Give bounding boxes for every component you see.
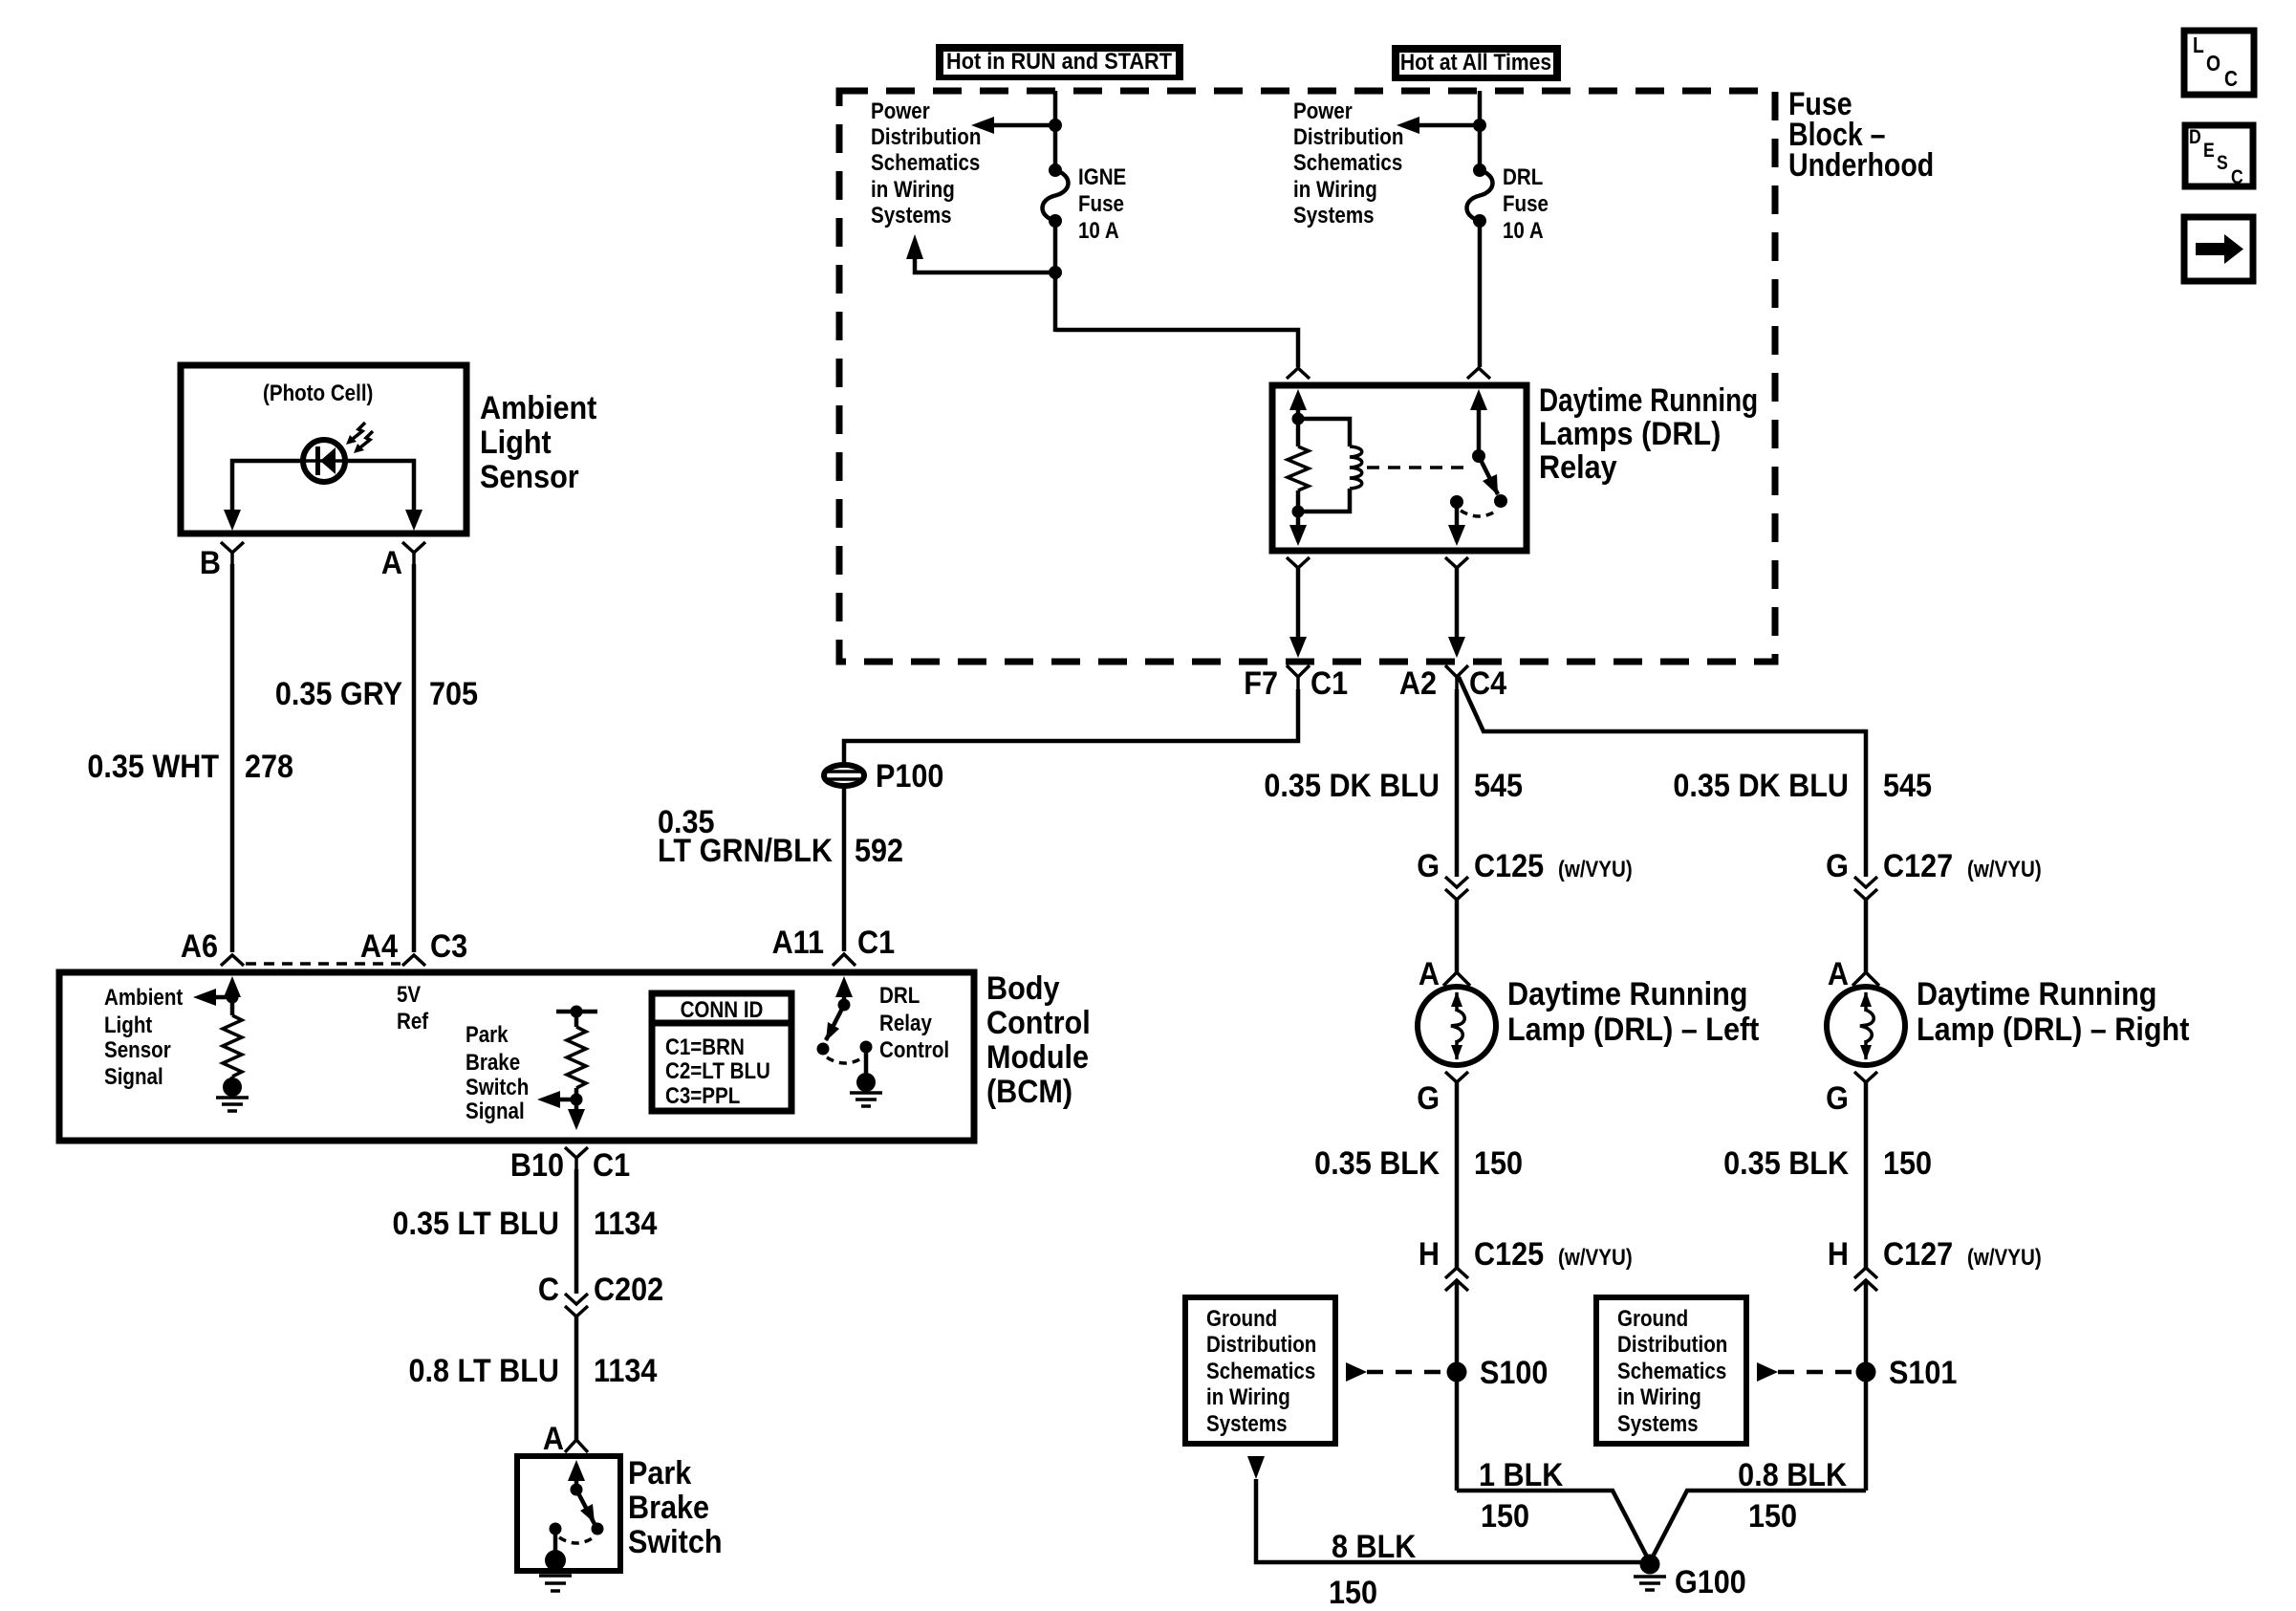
svg-text:C4: C4	[1469, 665, 1506, 702]
node S101	[1856, 1362, 1876, 1382]
wire: resistor bottom to junction	[1296, 490, 1301, 522]
relay output arrow (inside box, pointing down)	[1448, 525, 1465, 546]
svg-text:0.8 BLK: 0.8 BLK	[1738, 1457, 1847, 1493]
wire: DRL fuse output down to relay	[1478, 221, 1483, 367]
svg-text:LT GRN/BLK: LT GRN/BLK	[658, 833, 834, 869]
svg-text:D: D	[2189, 126, 2201, 149]
node: IGNE output junction	[1049, 266, 1062, 279]
Fuse Block - Underhood dashed enclosure	[839, 91, 1775, 662]
arrow: ambient light sensor signal (pointing left)	[193, 989, 216, 1006]
svg-text:B: B	[200, 545, 221, 581]
label: power distribution note (IGNE side)	[871, 98, 981, 228]
wire label: 0.8 BLK 150	[1738, 1457, 1847, 1535]
svg-text:C1=BRN: C1=BRN	[665, 1034, 745, 1059]
svg-text:in Wiring: in Wiring	[1293, 176, 1377, 202]
DESC legend box	[2185, 125, 2253, 188]
svg-text:Distribution: Distribution	[871, 123, 981, 149]
node: DRL relay control open contact	[817, 1043, 830, 1056]
svg-text:Distribution: Distribution	[1206, 1331, 1316, 1357]
label: Ground Distribution Schematics in Wiring Systems (right)	[1617, 1305, 1727, 1436]
dashed connector boundary between A6 and A4	[246, 962, 401, 966]
label: Body Control Module (BCM)	[986, 970, 1091, 1110]
relay coil branch wiring	[1298, 419, 1350, 446]
node: relay switch output contact	[1450, 495, 1463, 509]
svg-text:Systems: Systems	[1617, 1410, 1699, 1436]
svg-text:A4: A4	[360, 928, 398, 965]
relay switch common arrow (inside box)	[1470, 389, 1487, 410]
svg-text:DRL: DRL	[879, 982, 920, 1008]
connector pin A of park brake switch	[543, 1421, 588, 1457]
wire: sensor A to BCM A4 (0.35 GRY 705)	[412, 564, 417, 952]
wire: branch left and up to power distribution arrow	[915, 258, 1055, 272]
wire: battery feed into IGNE fuse	[1053, 91, 1058, 170]
label: Ground Distribution Schematics in Wiring Systems (left)	[1206, 1305, 1316, 1436]
resistor: park brake switch pull-up inside BCM	[567, 1012, 586, 1113]
svg-text:Ground: Ground	[1206, 1305, 1277, 1331]
wire label: 0.35 BLK 150 (left)	[1314, 1145, 1523, 1182]
wire: relay coil output down to fuse block edge	[1296, 568, 1301, 643]
arrow: ground distribution link (right, pointing right)	[1757, 1362, 1778, 1382]
node: DRL feed junction	[1473, 119, 1486, 132]
svg-text:IGNE: IGNE	[1078, 163, 1126, 189]
connector A4/C3 at BCM	[360, 928, 467, 966]
wire label: 1 BLK 150	[1479, 1457, 1564, 1535]
svg-text:(w/VYU): (w/VYU)	[1558, 1244, 1633, 1270]
wire: photocell left lead to pin B	[232, 461, 304, 514]
ground: ALS resistor ground inside BCM	[216, 1077, 249, 1111]
lamp E2: Daytime Running Lamp (DRL) - Right	[1827, 987, 1905, 1065]
svg-text:Park: Park	[466, 1021, 509, 1047]
wire: ALS signal tap to left	[216, 995, 232, 1000]
svg-text:A: A	[543, 1421, 564, 1457]
wire: park brake signal tap to left	[560, 1098, 576, 1102]
CONN ID table	[652, 993, 791, 1111]
connector pin G of right lamp	[1826, 1072, 1877, 1116]
svg-text:H: H	[1419, 1236, 1440, 1273]
svg-text:1 BLK: 1 BLK	[1479, 1457, 1564, 1493]
wire label: 0.8 LT BLU 1134	[409, 1353, 658, 1389]
label: Daytime Running Lamp (DRL) - Right	[1917, 976, 2190, 1048]
wire: F7 down, left and to P100	[844, 689, 1298, 765]
svg-text:Body: Body	[986, 970, 1059, 1007]
wire label: 0.35 LT BLU 1134	[393, 1206, 658, 1242]
node: ALS signal junction	[227, 991, 239, 1004]
wire: relay switch output down to fuse block edge	[1455, 568, 1460, 643]
svg-text:C2=LT BLU: C2=LT BLU	[665, 1057, 770, 1083]
Ground Distribution box (left)	[1185, 1297, 1335, 1444]
wire: right lamp return to S101	[1864, 1280, 1869, 1491]
svg-text:Daytime Running: Daytime Running	[1507, 976, 1747, 1012]
svg-text:S: S	[2217, 152, 2228, 175]
dashed wire to S101	[1778, 1370, 1854, 1375]
svg-text:545: 545	[1883, 768, 1932, 804]
svg-text:Switch: Switch	[628, 1524, 723, 1560]
svg-text:Schematics: Schematics	[1617, 1358, 1726, 1383]
node: park brake signal junction	[571, 1094, 583, 1106]
svg-text:in Wiring: in Wiring	[1206, 1383, 1290, 1409]
fuse DRL (10 A)	[1467, 163, 1493, 228]
switch arm: DRL relay control	[826, 1005, 844, 1040]
svg-text:Schematics: Schematics	[871, 149, 980, 175]
dashed travel arc of park brake switch	[559, 1537, 594, 1543]
wire: relay switch output down	[1455, 502, 1460, 541]
label: Daytime Running Lamp (DRL) - Left	[1507, 976, 1760, 1048]
svg-text:B10: B10	[510, 1147, 564, 1184]
wire: IGNE output over to relay coil input	[1055, 330, 1298, 367]
wire label: 8 BLK 150	[1329, 1529, 1417, 1611]
connector pin B of sensor	[200, 542, 244, 580]
svg-text:150: 150	[1329, 1575, 1377, 1611]
svg-text:Ground: Ground	[1617, 1305, 1688, 1331]
svg-text:Switch: Switch	[466, 1074, 529, 1099]
connector G/C125 (w/VYU) in-line left	[1417, 848, 1633, 900]
svg-text:C202: C202	[594, 1272, 663, 1308]
node: relay switch pivot	[1472, 449, 1485, 463]
connector chevron: relay switch pin (bottom, below box)	[1445, 557, 1468, 568]
svg-text:C125: C125	[1474, 848, 1544, 884]
wire: branch to power distribution (left arrow)	[994, 123, 1055, 128]
svg-text:H: H	[1828, 1236, 1849, 1273]
svg-text:A: A	[381, 545, 402, 581]
wire: left lamp ground lead	[1455, 1082, 1460, 1268]
svg-text:(w/VYU): (w/VYU)	[1967, 1244, 2042, 1270]
connector C/C202 in-line	[538, 1272, 663, 1317]
dashed link: coil actuates switch	[1367, 466, 1472, 469]
label: DRL Relay Control	[879, 982, 949, 1062]
arrow at fuse block exit (switch side)	[1448, 637, 1465, 658]
switch arm: park brake switch	[576, 1490, 595, 1524]
wire label: 0.35 GRY 705	[275, 676, 478, 712]
svg-text:Park: Park	[628, 1455, 692, 1491]
svg-text:C3: C3	[430, 928, 467, 965]
svg-text:0.35 GRY: 0.35 GRY	[275, 676, 403, 712]
svg-text:O: O	[2206, 53, 2220, 76]
svg-text:S100: S100	[1480, 1355, 1548, 1391]
svg-text:1134: 1134	[594, 1206, 657, 1242]
svg-text:Power: Power	[1293, 98, 1353, 123]
svg-text:C: C	[538, 1272, 559, 1308]
svg-text:0.35 BLK: 0.35 BLK	[1723, 1145, 1849, 1182]
wire: C202 to park brake switch (0.8 LT BLU 1134)	[574, 1317, 579, 1440]
svg-text:592: 592	[855, 833, 903, 869]
node: DRL relay control ground contact	[860, 1041, 873, 1054]
arrow: ground distribution link (left, pointing right)	[1346, 1362, 1367, 1382]
svg-text:278: 278	[245, 749, 293, 785]
wire: right lamp ground lead	[1864, 1082, 1869, 1268]
wire: A6 input to resistor	[230, 992, 235, 1015]
wire: pin A to switch pivot	[574, 1476, 579, 1490]
svg-text:Signal: Signal	[466, 1098, 525, 1123]
svg-text:0.35 LT BLU: 0.35 LT BLU	[393, 1206, 559, 1242]
svg-text:1134: 1134	[594, 1353, 657, 1389]
svg-text:Lamp (DRL) – Right: Lamp (DRL) – Right	[1917, 1012, 2190, 1048]
label: Park Brake Switch Signal	[466, 1021, 529, 1123]
svg-text:8 BLK: 8 BLK	[1332, 1529, 1417, 1565]
Fuse Block - Underhood label	[1788, 86, 1934, 184]
wire: IGNE fuse output down	[1053, 221, 1058, 332]
photocell D1 (photodiode in circle)	[303, 423, 373, 482]
ground: BCM driver ground	[850, 1047, 882, 1106]
svg-text:150: 150	[1474, 1145, 1523, 1182]
wire label: 0.35 DK BLU 545 (left)	[1264, 768, 1523, 804]
svg-text:Hot at All Times: Hot at All Times	[1400, 50, 1551, 76]
svg-text:Fuse: Fuse	[1503, 190, 1549, 216]
svg-text:A2: A2	[1399, 665, 1437, 702]
wire: S101 to G100 (0.8 BLK 150)	[1650, 1491, 1866, 1562]
svg-text:Light: Light	[480, 425, 552, 461]
wire: photocell right lead to pin A	[345, 461, 414, 514]
connector pin A of sensor	[381, 542, 425, 580]
svg-text:Power: Power	[871, 98, 930, 123]
svg-text:0.35 BLK: 0.35 BLK	[1314, 1145, 1440, 1182]
Park Brake Switch box	[517, 1456, 620, 1571]
svg-text:Fuse: Fuse	[1078, 190, 1124, 216]
svg-text:C1: C1	[857, 925, 895, 961]
arrow: ground distribution feed (below left box, pointing down)	[1247, 1456, 1265, 1479]
wire: S100 to G100 (1 BLK 150)	[1457, 1491, 1650, 1562]
wire label: 0.35 DK BLU 545 (right)	[1673, 768, 1932, 804]
svg-text:150: 150	[1883, 1145, 1932, 1182]
wire: battery feed into DRL fuse	[1478, 91, 1483, 170]
svg-text:Systems: Systems	[1293, 202, 1375, 228]
label: 5V Ref	[397, 981, 429, 1034]
svg-text:Light: Light	[104, 1012, 153, 1037]
svg-text:0.8 LT BLU: 0.8 LT BLU	[409, 1353, 559, 1389]
arrow: DRL relay control driver (inside BCM, pointing up)	[835, 976, 853, 997]
label: Daytime Running Lamps (DRL) Relay	[1539, 381, 1758, 485]
dashed travel arc of BCM switch	[827, 1057, 863, 1063]
svg-text:(w/VYU): (w/VYU)	[1967, 856, 2042, 882]
svg-text:Systems: Systems	[871, 202, 952, 228]
svg-text:Daytime Running: Daytime Running	[1917, 976, 2156, 1012]
svg-text:CONN ID: CONN ID	[681, 996, 764, 1022]
LOC legend box	[2184, 31, 2254, 95]
svg-text:Hot in RUN and START: Hot in RUN and START	[946, 48, 1172, 74]
label: power distribution note (DRL side)	[1293, 98, 1403, 228]
svg-text:Lamps (DRL): Lamps (DRL)	[1539, 416, 1721, 452]
svg-text:Ref: Ref	[397, 1008, 429, 1034]
park brake pull-up rail tee	[556, 1006, 597, 1018]
svg-text:Lamp (DRL) – Left: Lamp (DRL) – Left	[1507, 1012, 1760, 1048]
wire: branch to power distribution (left arrow, DRL side)	[1419, 123, 1480, 128]
svg-text:Sensor: Sensor	[480, 459, 579, 495]
wire: P100 down to BCM pin A11	[842, 786, 847, 951]
connector A11/C1: BCM	[772, 925, 896, 966]
connector pin A of right lamp	[1828, 956, 1879, 992]
resistor: ALS pull-up inside BCM	[223, 1015, 242, 1077]
svg-text:G100: G100	[1675, 1564, 1746, 1600]
connector A6 at BCM	[181, 928, 244, 966]
svg-text:(BCM): (BCM)	[986, 1074, 1072, 1110]
label: Park Brake Switch	[628, 1455, 723, 1560]
wire label: 0.35 BLK 150 (right)	[1723, 1145, 1932, 1182]
svg-text:Systems: Systems	[1206, 1410, 1288, 1436]
label: Ambient Light Sensor	[480, 390, 597, 495]
arrow: park brake signal output (pointing down, inside BCM)	[568, 1109, 585, 1130]
svg-text:Brake: Brake	[628, 1490, 709, 1526]
svg-text:545: 545	[1474, 768, 1523, 804]
svg-text:Relay: Relay	[1539, 449, 1617, 486]
arrow to power distribution schematics	[971, 117, 994, 134]
wire: C4 branch to right lamp	[1459, 677, 1866, 877]
connector chevron: relay coil pin (top, above box)	[1287, 368, 1310, 379]
svg-text:150: 150	[1481, 1498, 1529, 1535]
svg-text:F7: F7	[1244, 665, 1278, 702]
node: DRL relay control switch pivot	[838, 999, 851, 1012]
node: IGNE feed junction	[1049, 119, 1062, 132]
node S100	[1447, 1362, 1467, 1382]
wire: ground distribution to G100 (8 BLK 150)	[1256, 1479, 1650, 1562]
svg-text:0.35 WHT: 0.35 WHT	[87, 749, 219, 785]
wire: relay coil output lead	[1296, 522, 1301, 541]
svg-text:(Photo Cell): (Photo Cell)	[263, 380, 373, 405]
wire: left lamp return to S100	[1455, 1280, 1460, 1491]
wire: C125 to left lamp pin A	[1455, 900, 1460, 972]
node: park brake switch pivot	[571, 1484, 583, 1496]
connector G/C127 (w/VYU) in-line right	[1826, 848, 2042, 972]
svg-text:C1: C1	[1310, 665, 1348, 702]
arrow to power distribution schematics (DRL side)	[1397, 117, 1419, 134]
svg-text:Control: Control	[879, 1036, 949, 1062]
wire: relay switch common from DRL fuse	[1477, 402, 1482, 456]
node: coil/resistor top junction	[1292, 413, 1305, 425]
svg-text:C: C	[2231, 166, 2243, 189]
svg-text:P100: P100	[876, 758, 943, 795]
svg-text:in Wiring: in Wiring	[871, 176, 955, 202]
svg-text:Underhood: Underhood	[1788, 147, 1934, 184]
dashed wire to S100	[1367, 1370, 1445, 1375]
connector pin G of left lamp	[1417, 1072, 1468, 1116]
arrow: park brake switch signal (pointing left)	[537, 1091, 560, 1108]
svg-text:A: A	[1419, 956, 1440, 992]
Ground Distribution box (right)	[1596, 1297, 1746, 1444]
svg-text:C125: C125	[1474, 1236, 1544, 1273]
svg-text:0.35 DK BLU: 0.35 DK BLU	[1264, 768, 1440, 804]
arrow at fuse block exit (coil side)	[1289, 637, 1307, 658]
arrow up to power distribution schematics	[906, 234, 923, 259]
dashed travel arc of relay switch	[1461, 511, 1497, 516]
node: park brake switch arm end	[592, 1523, 604, 1535]
arrow: pin A inside sensor box	[405, 510, 422, 531]
label: Ambient Light Sensor Signal	[104, 984, 184, 1089]
connector A2/C4: fuse block output	[1399, 665, 1506, 702]
svg-text:G: G	[1417, 1080, 1440, 1117]
svg-text:Signal: Signal	[104, 1063, 163, 1089]
label: IGNE Fuse 10 A	[1078, 163, 1126, 243]
svg-text:Distribution: Distribution	[1293, 123, 1403, 149]
svg-text:Distribution: Distribution	[1617, 1331, 1727, 1357]
wire: A2/C4 down to left lamp	[1455, 689, 1460, 877]
label: DRL Fuse 10 A	[1503, 163, 1549, 243]
svg-text:Ambient: Ambient	[104, 984, 184, 1010]
svg-text:705: 705	[429, 676, 478, 712]
ground: park brake switch ground	[539, 1529, 572, 1591]
grommet P100	[824, 765, 864, 786]
svg-text:(w/VYU): (w/VYU)	[1558, 856, 1633, 882]
svg-text:C127: C127	[1883, 848, 1953, 884]
arrow: ambient light sensor signal input (inside BCM)	[224, 976, 241, 997]
connector H/C125 (w/VYU) in-line left	[1419, 1236, 1633, 1291]
relay coil input arrow (inside box)	[1289, 389, 1307, 410]
svg-text:E: E	[2203, 140, 2215, 163]
fuse IGNE (10 A)	[1043, 163, 1069, 228]
svg-text:Ambient: Ambient	[480, 390, 597, 426]
svg-text:Schematics: Schematics	[1206, 1358, 1315, 1383]
Hot in RUN and START label box	[939, 47, 1180, 77]
svg-text:Daytime Running: Daytime Running	[1539, 381, 1758, 418]
svg-text:A: A	[1828, 956, 1849, 992]
svg-text:A6: A6	[181, 928, 218, 965]
connector B10/C1 below BCM	[510, 1147, 630, 1184]
arrow: park brake input (inside box, pointing up)	[568, 1460, 585, 1481]
svg-text:DRL: DRL	[1503, 163, 1543, 189]
svg-text:G: G	[1826, 1080, 1849, 1117]
wire: A11 pin to switch pivot	[842, 992, 847, 1005]
relay coil output arrow (inside box, pointing down)	[1289, 525, 1307, 546]
svg-text:5V: 5V	[397, 981, 421, 1007]
svg-text:Schematics: Schematics	[1293, 149, 1402, 175]
wire: relay coil input	[1296, 406, 1301, 446]
svg-text:0.35 DK BLU: 0.35 DK BLU	[1673, 768, 1849, 804]
svg-text:150: 150	[1748, 1498, 1797, 1535]
svg-text:C1: C1	[593, 1147, 630, 1184]
wire: sensor B to BCM A6 (0.35 WHT 278)	[230, 564, 235, 952]
arrow: pin B inside sensor box	[224, 510, 241, 531]
node: park brake switch ground contact	[550, 1523, 562, 1535]
svg-text:Control: Control	[986, 1005, 1091, 1041]
connector pin A of left lamp	[1419, 956, 1470, 992]
connector chevron: relay switch pin (top, above box)	[1467, 368, 1490, 379]
svg-text:10 A: 10 A	[1078, 217, 1119, 243]
node: relay switch arm end	[1494, 494, 1507, 508]
svg-text:C: C	[2224, 68, 2238, 92]
svg-text:S101: S101	[1889, 1355, 1957, 1391]
relay switch arm	[1479, 456, 1498, 494]
connector F7/C1: fuse block output	[1244, 665, 1348, 702]
Ambient Light Sensor box	[181, 365, 466, 533]
svg-text:C3=PPL: C3=PPL	[665, 1082, 740, 1108]
wire label: 0.35 LT GRN/BLK 592	[658, 804, 903, 869]
wire: C127 to right lamp pin A	[1864, 900, 1869, 972]
svg-text:G: G	[1417, 848, 1440, 884]
resistor: relay coil suppression resistor	[1288, 446, 1309, 490]
connector H/C127 (w/VYU) in-line right	[1828, 1236, 2042, 1291]
svg-text:Sensor: Sensor	[104, 1036, 171, 1062]
relay K1: Daytime Running Lamps (DRL) Relay box	[1272, 385, 1527, 551]
svg-text:Brake: Brake	[466, 1049, 520, 1075]
svg-text:A11: A11	[772, 925, 824, 961]
svg-text:in Wiring: in Wiring	[1617, 1383, 1701, 1409]
wire: B10 to C202 (0.35 LT BLU 1134)	[574, 1169, 579, 1294]
arrow legend box	[2184, 217, 2253, 281]
svg-text:C127: C127	[1883, 1236, 1953, 1273]
Hot at All Times label box	[1395, 48, 1558, 78]
svg-text:10 A: 10 A	[1503, 217, 1544, 243]
Body Control Module (BCM) box	[59, 972, 974, 1141]
ground G100	[1634, 1555, 1666, 1591]
wire label: 0.35 WHT 278	[87, 749, 293, 785]
svg-text:Relay: Relay	[879, 1010, 932, 1035]
lamp E1: Daytime Running Lamp (DRL) - Left	[1418, 987, 1496, 1065]
connector chevron: relay coil pin (bottom, below box)	[1287, 557, 1310, 568]
coil: relay winding	[1350, 446, 1362, 489]
svg-text:L: L	[2193, 34, 2204, 58]
svg-text:G: G	[1826, 848, 1849, 884]
node: coil/resistor bottom junction	[1292, 506, 1305, 518]
svg-text:Module: Module	[986, 1039, 1089, 1076]
